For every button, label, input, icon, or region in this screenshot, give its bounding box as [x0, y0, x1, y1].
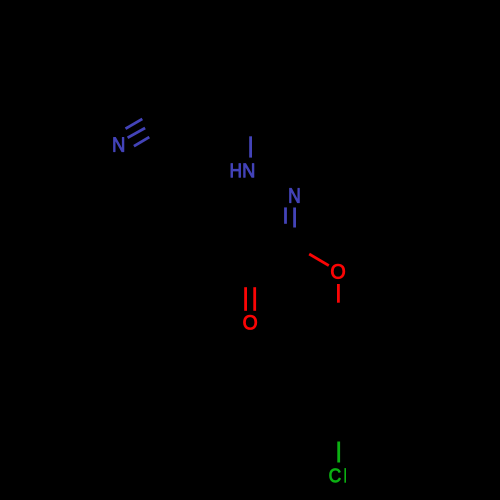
nitrile C#N triple bond, middle line, N half: [128, 128, 146, 138]
atom label N of HN: [244, 164, 254, 178]
nitrile C#N triple bond, outer line, N half: [126, 119, 143, 129]
O-aryl single bond, O half: [337, 284, 340, 303]
atom label N of hydrazone C=N: [290, 188, 300, 202]
C-N(H) single bond, N half: [249, 136, 252, 157]
atom label O of carbonyl: [244, 315, 257, 329]
atom label H of HN: [231, 164, 241, 178]
C=N double bond, main line, N half: [293, 208, 296, 228]
atom label N of nitrile: [114, 137, 124, 151]
C-Cl single bond, Cl half: [337, 442, 340, 463]
atom label C of Cl: [330, 469, 341, 483]
C-O ester single bond, O half: [309, 254, 329, 266]
C=O double bond, main line, O half: [244, 287, 247, 311]
C=O double bond, second line, O half: [253, 287, 256, 311]
nitrile C#N triple bond, outer line, N half: [134, 137, 149, 146]
C=N double bond, inner line, N half: [284, 207, 287, 223]
atom label l of Cl: [344, 468, 346, 483]
atom label O of ester/phenoxy: [331, 264, 344, 279]
